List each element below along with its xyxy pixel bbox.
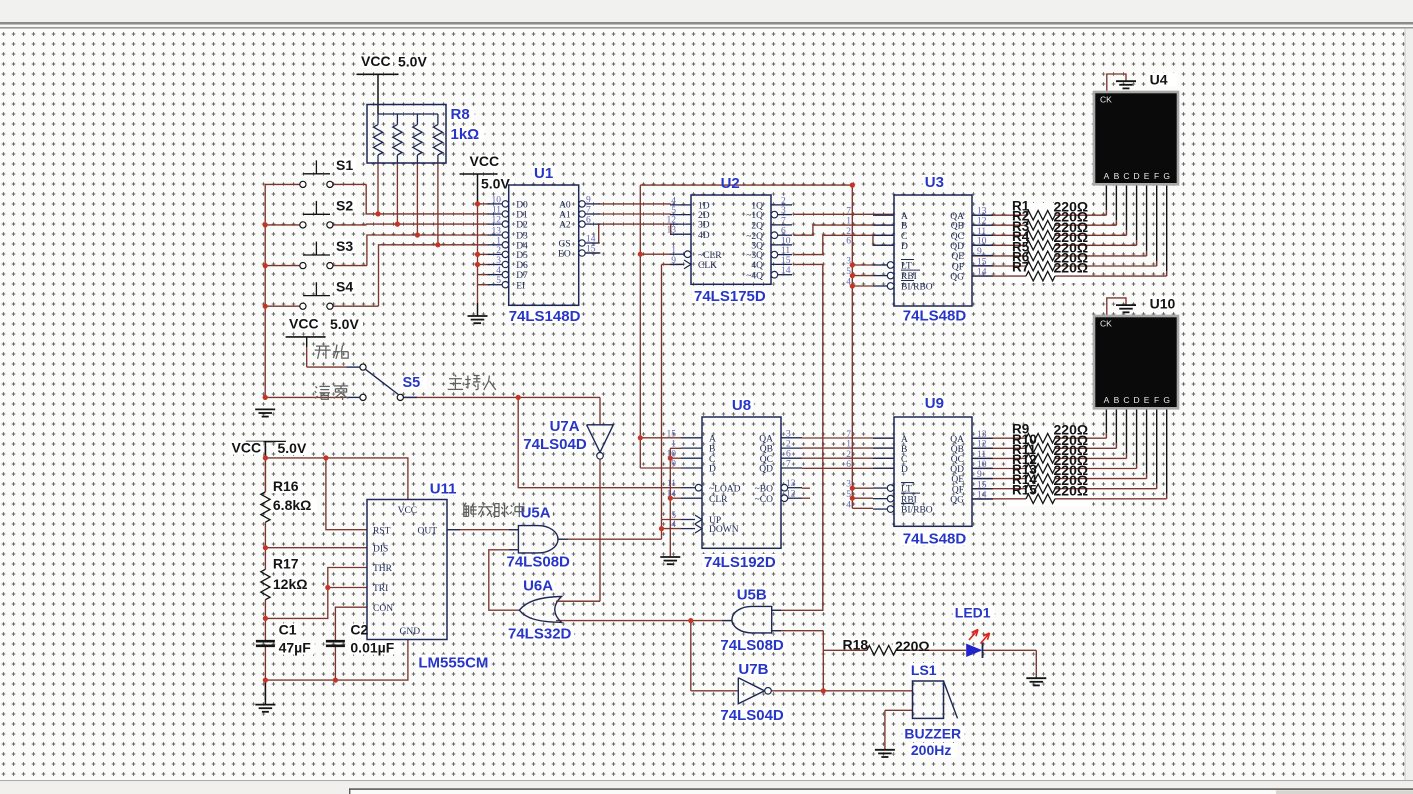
svg-text:1D: 1D — [698, 202, 710, 212]
svg-text:E: E — [1144, 171, 1150, 181]
svg-text:~CO: ~CO — [755, 495, 773, 505]
svg-text:4D: 4D — [698, 231, 710, 241]
svg-text:2: 2 — [781, 196, 786, 206]
svg-text:10: 10 — [781, 236, 791, 246]
svg-text:R15: R15 — [1012, 482, 1037, 497]
svg-text:C: C — [901, 455, 907, 465]
svg-text:0.01µF: 0.01µF — [350, 640, 394, 656]
svg-text:QE: QE — [951, 252, 964, 262]
svg-text:12: 12 — [977, 217, 987, 227]
svg-text:5.0V: 5.0V — [330, 316, 359, 332]
svg-text:~1Q: ~1Q — [746, 211, 763, 221]
svg-text:S4: S4 — [336, 279, 353, 295]
svg-text:4: 4 — [846, 501, 851, 511]
svg-text:QC: QC — [951, 455, 964, 465]
svg-text:BI/RBO: BI/RBO — [901, 506, 933, 516]
svg-text:4: 4 — [671, 196, 676, 206]
svg-text:C2: C2 — [350, 622, 368, 638]
svg-text:D1: D1 — [516, 211, 528, 221]
svg-text:D: D — [901, 465, 908, 475]
svg-text:10: 10 — [977, 237, 987, 247]
svg-text:5.0V: 5.0V — [398, 54, 427, 70]
svg-text:7: 7 — [846, 430, 851, 440]
svg-text:15: 15 — [977, 480, 987, 490]
svg-text:7: 7 — [786, 460, 791, 470]
svg-text:THR: THR — [373, 564, 393, 574]
svg-text:EO: EO — [558, 250, 571, 260]
svg-text:~BO: ~BO — [755, 484, 773, 494]
svg-text:G: G — [1163, 171, 1170, 181]
svg-text:C: C — [901, 232, 907, 242]
svg-text:15: 15 — [586, 245, 596, 255]
svg-text:1: 1 — [846, 440, 851, 450]
svg-text:R17: R17 — [273, 556, 299, 572]
svg-text:U4: U4 — [1150, 72, 1168, 88]
svg-text:220Ω: 220Ω — [895, 638, 930, 654]
svg-text:D: D — [709, 465, 716, 475]
svg-text:D2: D2 — [516, 221, 528, 231]
svg-text:3: 3 — [781, 206, 786, 216]
svg-text:3D: 3D — [698, 221, 710, 231]
svg-text:13: 13 — [786, 479, 796, 489]
svg-text:C: C — [1123, 395, 1129, 405]
svg-text:QD: QD — [950, 465, 964, 475]
svg-text:A0: A0 — [559, 201, 571, 211]
svg-text:74LS04D: 74LS04D — [523, 436, 587, 453]
svg-text:74LS04D: 74LS04D — [720, 707, 784, 724]
svg-text:QF: QF — [952, 262, 964, 272]
svg-text:DOWN: DOWN — [709, 525, 739, 535]
svg-text:GS: GS — [559, 240, 571, 250]
svg-text:11: 11 — [781, 246, 790, 256]
svg-text:U8: U8 — [732, 397, 751, 414]
svg-text:R18: R18 — [843, 637, 869, 653]
svg-text:14: 14 — [977, 491, 987, 501]
svg-text:13: 13 — [667, 226, 677, 236]
svg-text:2: 2 — [786, 440, 791, 450]
svg-text:12: 12 — [977, 440, 987, 450]
svg-text:LS1: LS1 — [911, 662, 937, 678]
svg-text:U10: U10 — [1150, 296, 1176, 312]
svg-text:B: B — [709, 445, 715, 455]
svg-text:3: 3 — [496, 256, 501, 266]
svg-text:CON: CON — [373, 604, 393, 614]
svg-text:74LS48D: 74LS48D — [903, 308, 967, 325]
svg-text:12: 12 — [667, 216, 677, 226]
svg-text:3: 3 — [846, 257, 851, 267]
svg-text:U5A: U5A — [521, 505, 551, 522]
svg-text:4: 4 — [496, 266, 501, 276]
svg-text:10: 10 — [492, 195, 502, 205]
svg-text:CK: CK — [1100, 319, 1112, 329]
svg-text:A1: A1 — [559, 211, 571, 221]
svg-text:QE: QE — [951, 475, 964, 485]
svg-text:14: 14 — [586, 235, 596, 245]
svg-text:U6A: U6A — [523, 578, 553, 595]
svg-text:200Hz: 200Hz — [911, 742, 951, 758]
svg-text:D0: D0 — [516, 201, 528, 211]
svg-text:1Q: 1Q — [751, 202, 763, 212]
svg-text:R8: R8 — [451, 106, 470, 123]
svg-text:15: 15 — [667, 429, 677, 439]
svg-text:B: B — [1114, 395, 1120, 405]
svg-text:BUZZER: BUZZER — [904, 726, 961, 742]
svg-text:QA: QA — [950, 212, 964, 222]
svg-text:LM555CM: LM555CM — [418, 655, 488, 672]
svg-text:4: 4 — [846, 278, 851, 288]
svg-text:LED1: LED1 — [955, 605, 991, 621]
svg-text:~CLR: ~CLR — [698, 251, 722, 261]
svg-text:A: A — [901, 212, 908, 222]
svg-text:6: 6 — [846, 460, 851, 470]
svg-text:5: 5 — [496, 276, 501, 286]
svg-text:3Q: 3Q — [751, 242, 763, 252]
svg-text:C: C — [1123, 171, 1129, 181]
svg-text:D3: D3 — [516, 232, 528, 242]
svg-text:VCC: VCC — [232, 440, 262, 456]
svg-text:D4: D4 — [516, 241, 528, 251]
svg-text:D: D — [1133, 395, 1139, 405]
svg-text:5: 5 — [846, 490, 851, 500]
svg-text:1: 1 — [671, 246, 676, 256]
svg-text:2: 2 — [846, 450, 851, 460]
svg-text:3: 3 — [786, 429, 791, 439]
svg-text:74LS192D: 74LS192D — [704, 554, 776, 571]
svg-text:~3Q: ~3Q — [746, 251, 763, 261]
svg-text:2: 2 — [496, 246, 501, 256]
svg-text:220Ω: 220Ω — [1054, 482, 1089, 498]
svg-text:74LS08D: 74LS08D — [507, 554, 571, 571]
svg-text:74LS148D: 74LS148D — [509, 308, 581, 325]
svg-text:~LOAD: ~LOAD — [709, 484, 741, 494]
svg-text:QD: QD — [950, 242, 964, 252]
svg-text:CK: CK — [1100, 95, 1112, 105]
svg-text:5: 5 — [846, 267, 851, 277]
svg-text:3: 3 — [846, 480, 851, 490]
svg-text:6: 6 — [786, 450, 791, 460]
svg-text:B: B — [901, 445, 907, 455]
svg-text:QC: QC — [760, 455, 773, 465]
svg-text:7: 7 — [781, 216, 786, 226]
svg-text:U3: U3 — [925, 174, 944, 191]
svg-text:7: 7 — [586, 206, 591, 216]
svg-text:13: 13 — [977, 430, 987, 440]
svg-text:1kΩ: 1kΩ — [451, 126, 480, 143]
svg-text:15: 15 — [977, 257, 987, 267]
svg-text:13: 13 — [492, 227, 502, 237]
svg-text:C: C — [709, 455, 715, 465]
svg-text:VCC: VCC — [289, 316, 319, 332]
svg-text:11: 11 — [977, 227, 986, 237]
svg-text:4: 4 — [671, 520, 676, 530]
svg-text:2Q: 2Q — [751, 222, 763, 232]
svg-text:U9: U9 — [925, 395, 944, 412]
svg-text:S3: S3 — [336, 238, 353, 254]
svg-text:QB: QB — [951, 445, 964, 455]
svg-text:1: 1 — [671, 440, 676, 450]
svg-text:7: 7 — [846, 207, 851, 217]
svg-text:6: 6 — [846, 237, 851, 247]
svg-text:QG: QG — [950, 273, 964, 283]
svg-text:QD: QD — [759, 465, 773, 475]
svg-text:74LS32D: 74LS32D — [508, 626, 572, 643]
svg-text:S5: S5 — [403, 375, 421, 391]
svg-text:1: 1 — [496, 236, 501, 246]
svg-text:9: 9 — [671, 256, 676, 266]
svg-text:1: 1 — [846, 217, 851, 227]
svg-text:R7: R7 — [1012, 260, 1029, 275]
svg-text:QB: QB — [760, 445, 773, 455]
svg-text:6: 6 — [781, 227, 786, 237]
svg-text:A: A — [901, 435, 908, 445]
svg-text:QA: QA — [950, 435, 964, 445]
svg-text:U7B: U7B — [738, 661, 768, 678]
svg-text:QA: QA — [759, 434, 773, 444]
svg-text:D5: D5 — [516, 251, 528, 261]
svg-text:5.0V: 5.0V — [278, 440, 307, 456]
svg-text:74LS08D: 74LS08D — [720, 637, 784, 654]
svg-text:U1: U1 — [534, 165, 553, 182]
svg-text:14: 14 — [781, 266, 791, 276]
svg-text:QG: QG — [950, 496, 964, 506]
svg-text:B: B — [1114, 171, 1120, 181]
svg-text:QC: QC — [951, 232, 964, 242]
svg-text:5: 5 — [671, 206, 676, 216]
svg-text:2: 2 — [846, 227, 851, 237]
svg-text:74LS175D: 74LS175D — [694, 288, 766, 305]
svg-text:A2: A2 — [559, 221, 571, 231]
svg-text:S2: S2 — [336, 197, 353, 213]
svg-text:VCC: VCC — [361, 53, 391, 69]
svg-text:9: 9 — [586, 195, 591, 205]
svg-text:220Ω: 220Ω — [1054, 260, 1089, 276]
svg-text:TRI: TRI — [373, 584, 388, 594]
svg-text:6.8kΩ: 6.8kΩ — [273, 497, 311, 513]
svg-text:~2Q: ~2Q — [746, 232, 763, 242]
svg-text:F: F — [1154, 171, 1159, 181]
svg-text:EI: EI — [516, 281, 525, 291]
svg-text:A: A — [1104, 171, 1110, 181]
svg-text:BI/RBO: BI/RBO — [901, 283, 933, 293]
svg-text:VCC: VCC — [470, 153, 500, 169]
svg-text:U5B: U5B — [737, 587, 767, 604]
svg-text:9: 9 — [671, 460, 676, 470]
svg-text:S1: S1 — [336, 157, 353, 173]
svg-text:A: A — [1104, 395, 1110, 405]
svg-text:12: 12 — [786, 490, 796, 500]
svg-text:10: 10 — [667, 450, 677, 460]
svg-text:D6: D6 — [516, 261, 528, 271]
svg-text:OUT: OUT — [417, 527, 437, 537]
svg-text:CLK: CLK — [698, 261, 717, 271]
svg-text:~4Q: ~4Q — [746, 271, 763, 281]
svg-text:E: E — [1144, 395, 1150, 405]
svg-text:QF: QF — [952, 485, 964, 495]
svg-text:47µF: 47µF — [279, 640, 312, 656]
svg-text:2D: 2D — [698, 211, 710, 221]
svg-text:D7: D7 — [516, 271, 528, 281]
svg-text:CLR: CLR — [709, 495, 728, 505]
svg-text:F: F — [1154, 395, 1159, 405]
svg-text:13: 13 — [977, 207, 987, 217]
svg-text:DIS: DIS — [373, 544, 388, 554]
svg-text:D: D — [901, 242, 908, 252]
svg-text:G: G — [1163, 395, 1170, 405]
svg-text:10: 10 — [977, 460, 987, 470]
svg-text:U2: U2 — [721, 175, 740, 192]
svg-text:4Q: 4Q — [751, 261, 763, 271]
svg-text:U11: U11 — [430, 481, 457, 498]
svg-text:11: 11 — [977, 450, 986, 460]
svg-text:12: 12 — [492, 216, 502, 226]
svg-text:15: 15 — [781, 256, 791, 266]
svg-text:12kΩ: 12kΩ — [273, 576, 308, 592]
svg-text:9: 9 — [977, 247, 982, 257]
svg-text:U7A: U7A — [550, 418, 580, 435]
svg-text:14: 14 — [667, 490, 677, 500]
svg-text:R16: R16 — [273, 478, 299, 494]
svg-text:RST: RST — [373, 526, 391, 536]
svg-text:A: A — [709, 434, 716, 444]
svg-text:11: 11 — [492, 206, 501, 216]
svg-text:5.0V: 5.0V — [481, 176, 510, 192]
svg-text:9: 9 — [977, 470, 982, 480]
svg-text:14: 14 — [977, 268, 987, 278]
svg-text:C1: C1 — [279, 622, 297, 638]
svg-text:GND: GND — [400, 627, 421, 637]
svg-text:VCC: VCC — [398, 506, 418, 516]
svg-text:D: D — [1133, 171, 1139, 181]
svg-text:11: 11 — [667, 479, 676, 489]
svg-text:QB: QB — [951, 222, 964, 232]
svg-text:B: B — [901, 222, 907, 232]
svg-text:74LS48D: 74LS48D — [903, 531, 967, 548]
svg-text:6: 6 — [586, 216, 591, 226]
